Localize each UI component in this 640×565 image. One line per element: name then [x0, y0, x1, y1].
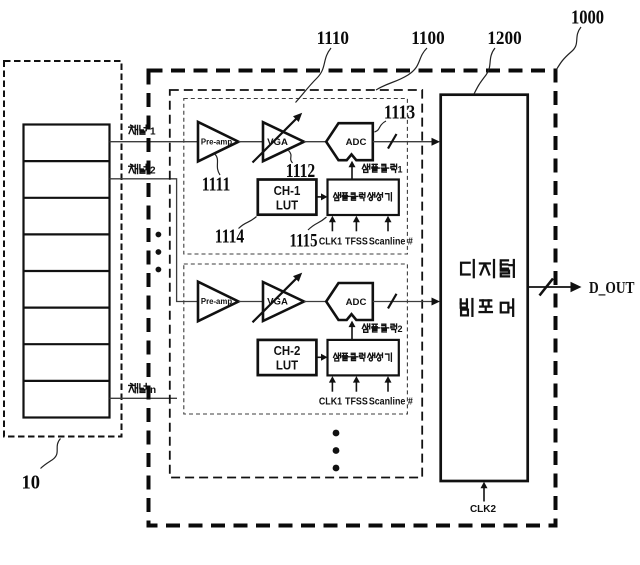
leader line for 1113 — [375, 121, 387, 132]
leader line for 1100 — [376, 48, 427, 90]
svg-text:CLK2: CLK2 — [470, 504, 497, 515]
arrow LUT to sample clock generator channel 1 — [316, 196, 322, 198]
svg-text:1110: 1110 — [317, 27, 349, 48]
wire VGA to ADC channel 1 — [304, 141, 326, 143]
transducer array dashed enclosure 10 — [4, 61, 122, 437]
vertical ellipsis below channel 2 block — [333, 430, 340, 472]
sample clock wire into ADC channel 1 — [351, 167, 353, 180]
leader line for 1111 — [215, 154, 221, 175]
svg-text:1100: 1100 — [411, 27, 444, 48]
svg-text:TFSS: TFSS — [345, 236, 368, 248]
ADC channel 1 — [326, 123, 373, 160]
svg-text:10: 10 — [22, 472, 41, 494]
svg-text:1115: 1115 — [290, 230, 318, 251]
svg-text:Pre-amp: Pre-amp — [201, 297, 232, 306]
transducer element stack — [24, 125, 110, 418]
channel 1 dashed block 1110 — [184, 99, 408, 255]
svg-text:1111: 1111 — [202, 173, 231, 195]
svg-text:ADC: ADC — [346, 297, 367, 308]
svg-text:D_OUT: D_OUT — [589, 278, 634, 297]
wire channel 1 — [110, 141, 199, 143]
digital beamformer block 1200 — [441, 95, 528, 481]
sample clock generator channel 2 — [328, 340, 399, 376]
wire D_OUT — [528, 286, 571, 288]
svg-text:1000: 1000 — [571, 6, 604, 28]
VGA channel 2 — [263, 282, 304, 321]
svg-text:2: 2 — [398, 324, 403, 334]
bus slash D_OUT — [540, 279, 554, 296]
wire pre-amp to VGA channel 1 — [239, 141, 264, 143]
leader line for 1114 — [239, 217, 257, 229]
label channel-2 — [129, 164, 138, 173]
channel 2 dashed block 1110 — [184, 264, 408, 414]
sample clock label channel 1 — [362, 164, 369, 172]
analog front-end dashed enclosure 1100 — [170, 90, 422, 478]
svg-text:CH-2: CH-2 — [274, 344, 301, 359]
svg-text:1112: 1112 — [286, 160, 316, 182]
svg-text:Scanline #: Scanline # — [369, 236, 414, 248]
bus slash channel 2 — [388, 294, 397, 309]
leader line for 10 — [41, 439, 61, 469]
system dashed enclosure 1000 — [149, 71, 556, 526]
wire channel n stub — [110, 397, 178, 399]
wire pre-amp to VGA channel 2 — [239, 301, 264, 303]
svg-text:1200: 1200 — [487, 27, 521, 48]
arrow LUT to sample clock generator channel 2 — [316, 356, 322, 358]
leader line for 1200 — [474, 48, 495, 94]
svg-text:LUT: LUT — [276, 358, 299, 373]
svg-text:2: 2 — [150, 166, 156, 177]
bus slash channel 1 — [388, 134, 397, 149]
label channel-n — [129, 384, 138, 393]
ADC channel 2 — [326, 283, 373, 320]
leader line for 1115 — [308, 217, 327, 230]
svg-text:Pre-amp: Pre-amp — [201, 137, 232, 146]
VGA gain arrow channel 2 — [253, 277, 298, 322]
leader line for 1112 — [289, 151, 293, 164]
CH-2 LUT — [258, 340, 317, 375]
CH-1 LUT — [258, 180, 317, 215]
label channel-1 — [129, 125, 138, 134]
svg-text:1: 1 — [150, 127, 156, 138]
svg-text:1114: 1114 — [215, 225, 245, 247]
svg-text:ADC: ADC — [346, 137, 367, 148]
svg-text:1: 1 — [398, 164, 403, 174]
svg-text:VGA: VGA — [267, 137, 288, 148]
svg-text:LUT: LUT — [276, 198, 299, 213]
svg-text:TFSS: TFSS — [345, 396, 368, 408]
vertical ellipsis between channel rows (left) — [156, 232, 162, 273]
sample clock generator channel 1 — [328, 180, 399, 216]
leader line for 1000 — [557, 27, 582, 70]
svg-text:CLK1: CLK1 — [319, 236, 342, 248]
leader line for 1110 — [296, 48, 332, 103]
generator input arrows channel 2 — [331, 381, 333, 391]
svg-text:n: n — [150, 385, 156, 396]
VGA channel 1 — [263, 122, 304, 161]
sample clock label channel 2 — [362, 324, 369, 332]
sample clock wire into ADC channel 2 — [351, 326, 353, 339]
pre-amp channel 2 — [198, 282, 239, 322]
wire ADC to beamformer channel 1 — [373, 141, 432, 143]
VGA gain arrow channel 1 — [253, 118, 298, 163]
pre-amp channel 1 — [198, 122, 239, 161]
wire channel 2 (down and right to second pre-amp) — [110, 179, 199, 302]
svg-text:CH-1: CH-1 — [274, 183, 301, 198]
svg-text:1113: 1113 — [384, 101, 415, 123]
svg-text:VGA: VGA — [267, 297, 288, 308]
wire ADC to beamformer channel 2 — [373, 301, 432, 303]
svg-text:Scanline #: Scanline # — [369, 396, 414, 408]
svg-text:CLK1: CLK1 — [319, 396, 342, 408]
wire VGA to ADC channel 2 — [304, 301, 326, 303]
generator input arrows channel 1 — [331, 221, 333, 231]
CLK2 input arrow — [483, 488, 485, 502]
